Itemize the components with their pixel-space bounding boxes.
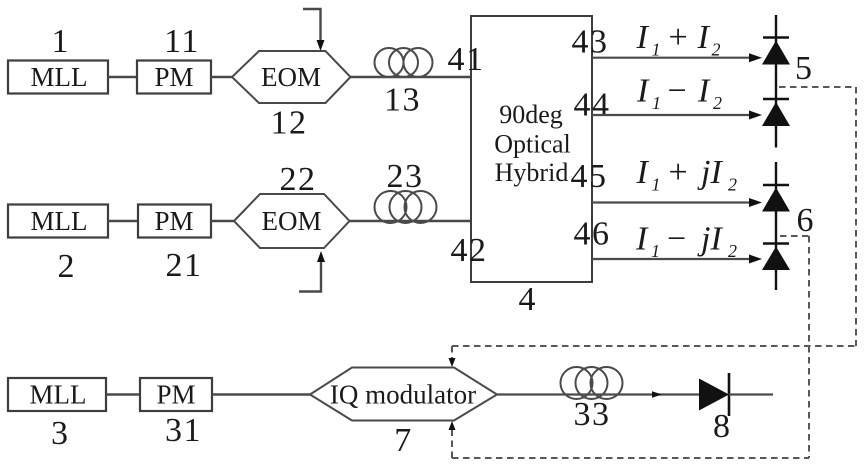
node 45 xyxy=(571,158,608,195)
fiber coil 23 xyxy=(375,191,437,223)
svg-text:11: 11 xyxy=(164,23,200,60)
label 12 xyxy=(271,105,308,142)
node 44 xyxy=(574,87,611,124)
svg-text:EOM: EOM xyxy=(261,62,321,92)
svg-text:MLL: MLL xyxy=(30,380,87,410)
svg-text:45: 45 xyxy=(571,158,608,195)
svg-text:PM: PM xyxy=(154,206,193,236)
wire output 44 with arrow xyxy=(592,111,762,120)
dashed tap from node between D1 D2 xyxy=(779,86,856,88)
dashed feed arrow into IQ bottom xyxy=(449,421,456,458)
svg-text:PM: PM xyxy=(156,380,195,410)
dashed feed arrow into IQ top xyxy=(449,346,456,367)
label 31 xyxy=(165,412,202,449)
svg-text:Optical: Optical xyxy=(494,130,571,159)
label 21 xyxy=(166,247,203,284)
photodiode D3 triangle xyxy=(762,188,790,212)
svg-text:PM: PM xyxy=(154,62,193,92)
label MLL 1 text xyxy=(31,62,88,92)
IQ modulator 7 hexagon xyxy=(310,368,497,421)
label I1+jI2 xyxy=(636,154,738,195)
wire MLL2-PM2 xyxy=(108,220,138,222)
EOM modulator 22 hexagon xyxy=(234,194,350,248)
wire output 43 with arrow xyxy=(592,53,762,62)
label 4 xyxy=(519,281,536,318)
node 41 xyxy=(448,41,485,78)
label 90deg xyxy=(499,100,563,129)
svg-text:43: 43 xyxy=(572,24,609,61)
box MLL 1 xyxy=(8,61,108,94)
photodiode D3 bar xyxy=(763,184,789,187)
photodiode D1 triangle xyxy=(762,41,790,65)
svg-text:33: 33 xyxy=(574,396,611,433)
svg-text:6: 6 xyxy=(797,202,814,239)
photodiode D4 triangle xyxy=(762,247,790,271)
diode 8 cathode bar xyxy=(728,373,731,416)
label 2 xyxy=(58,248,75,285)
label EOM 22 text xyxy=(262,206,322,236)
dashed vertical mid xyxy=(808,236,810,458)
svg-text:23: 23 xyxy=(387,158,424,195)
label 23 xyxy=(387,158,424,195)
svg-text:1: 1 xyxy=(52,23,69,60)
dashed vertical right xyxy=(855,87,857,346)
box MLL 3 xyxy=(8,378,106,411)
label PM 11 text xyxy=(154,62,193,92)
label PM 31 text xyxy=(156,380,195,410)
wire EOM2 to hybrid input 42 xyxy=(350,220,472,222)
wire PM2-EOM2 xyxy=(211,220,235,222)
node 42 xyxy=(451,232,488,269)
fiber coil 33 xyxy=(561,367,623,399)
wire output 46 with arrow xyxy=(592,255,762,264)
svg-text:44: 44 xyxy=(574,87,611,124)
label 5 xyxy=(795,50,812,87)
dashed box top edge xyxy=(452,345,856,347)
svg-text:90deg: 90deg xyxy=(499,100,563,129)
label PM 21 text xyxy=(154,206,193,236)
fiber coil 13 xyxy=(375,48,433,77)
label I1-jI2 xyxy=(635,221,737,262)
svg-text:42: 42 xyxy=(451,232,488,269)
label 33 xyxy=(574,396,611,433)
label IQ modulator text xyxy=(330,380,476,410)
direction arrow on wire 33 xyxy=(652,391,662,398)
wire IQ to diode 8 xyxy=(497,393,699,395)
photodiode D4 bar xyxy=(763,242,789,245)
wire output 45 with arrow xyxy=(592,198,762,207)
svg-text:21: 21 xyxy=(166,247,203,284)
svg-text:7: 7 xyxy=(394,422,411,459)
label 11 xyxy=(164,23,200,60)
wire PM3-IQ xyxy=(212,393,311,395)
label 13 xyxy=(384,82,421,119)
svg-text:8: 8 xyxy=(713,408,730,445)
photodiode D2 bar xyxy=(763,98,789,101)
svg-text:EOM: EOM xyxy=(262,206,322,236)
svg-text:IQ modulator: IQ modulator xyxy=(330,380,476,410)
EOM modulator 12 hexagon xyxy=(232,51,351,103)
svg-text:MLL: MLL xyxy=(31,206,88,236)
label 6 xyxy=(797,202,814,239)
diode 8 triangle xyxy=(699,379,729,411)
RF drive arrow into EOM 22 xyxy=(299,251,325,292)
label I1+I2 xyxy=(636,19,721,60)
label I1-I2 xyxy=(636,73,722,114)
label Optical xyxy=(494,130,571,159)
box PM 31 xyxy=(140,378,212,411)
node 46 xyxy=(574,216,611,253)
svg-text:MLL: MLL xyxy=(31,62,88,92)
photodiode D1 bar xyxy=(763,36,789,39)
box MLL 2 xyxy=(8,205,108,238)
label MLL 2 text xyxy=(31,206,88,236)
wire MLL3-PM3 xyxy=(106,393,140,395)
svg-text:41: 41 xyxy=(448,41,485,78)
90deg optical hybrid U4 box xyxy=(471,16,592,282)
photodiode D2 triangle xyxy=(762,102,790,126)
dashed box bottom edge xyxy=(452,457,809,459)
svg-text:13: 13 xyxy=(384,82,421,119)
label EOM 12 text xyxy=(261,62,321,92)
svg-text:46: 46 xyxy=(574,216,611,253)
photodiode pair 6 cathode line xyxy=(775,162,777,290)
svg-text:2: 2 xyxy=(58,248,75,285)
label 8 xyxy=(713,408,730,445)
RF drive arrow into EOM 12 xyxy=(303,9,325,51)
svg-text:5: 5 xyxy=(795,50,812,87)
label 7 xyxy=(394,422,411,459)
wire out of diode 8 xyxy=(729,393,773,395)
svg-text:31: 31 xyxy=(165,412,202,449)
label Hybrid xyxy=(495,158,569,187)
wire EOM1 to hybrid input 41 xyxy=(351,76,472,78)
svg-text:3: 3 xyxy=(51,415,68,452)
svg-text:12: 12 xyxy=(271,105,308,142)
label 22 xyxy=(280,161,317,198)
box PM 21 xyxy=(138,205,211,238)
node 43 xyxy=(572,24,609,61)
svg-text:Hybrid: Hybrid xyxy=(495,158,569,187)
svg-text:4: 4 xyxy=(519,281,536,318)
label 3 xyxy=(51,415,68,452)
box PM 11 xyxy=(137,61,211,94)
wire PM1-EOM1 xyxy=(211,76,233,78)
label MLL 3 text xyxy=(30,380,87,410)
svg-text:22: 22 xyxy=(280,161,317,198)
label 1 xyxy=(52,23,69,60)
dashed tap from node between D3 D4 xyxy=(780,235,809,237)
photodiode pair 5 cathode line xyxy=(775,15,777,148)
wire MLL1-PM1 xyxy=(108,76,137,78)
